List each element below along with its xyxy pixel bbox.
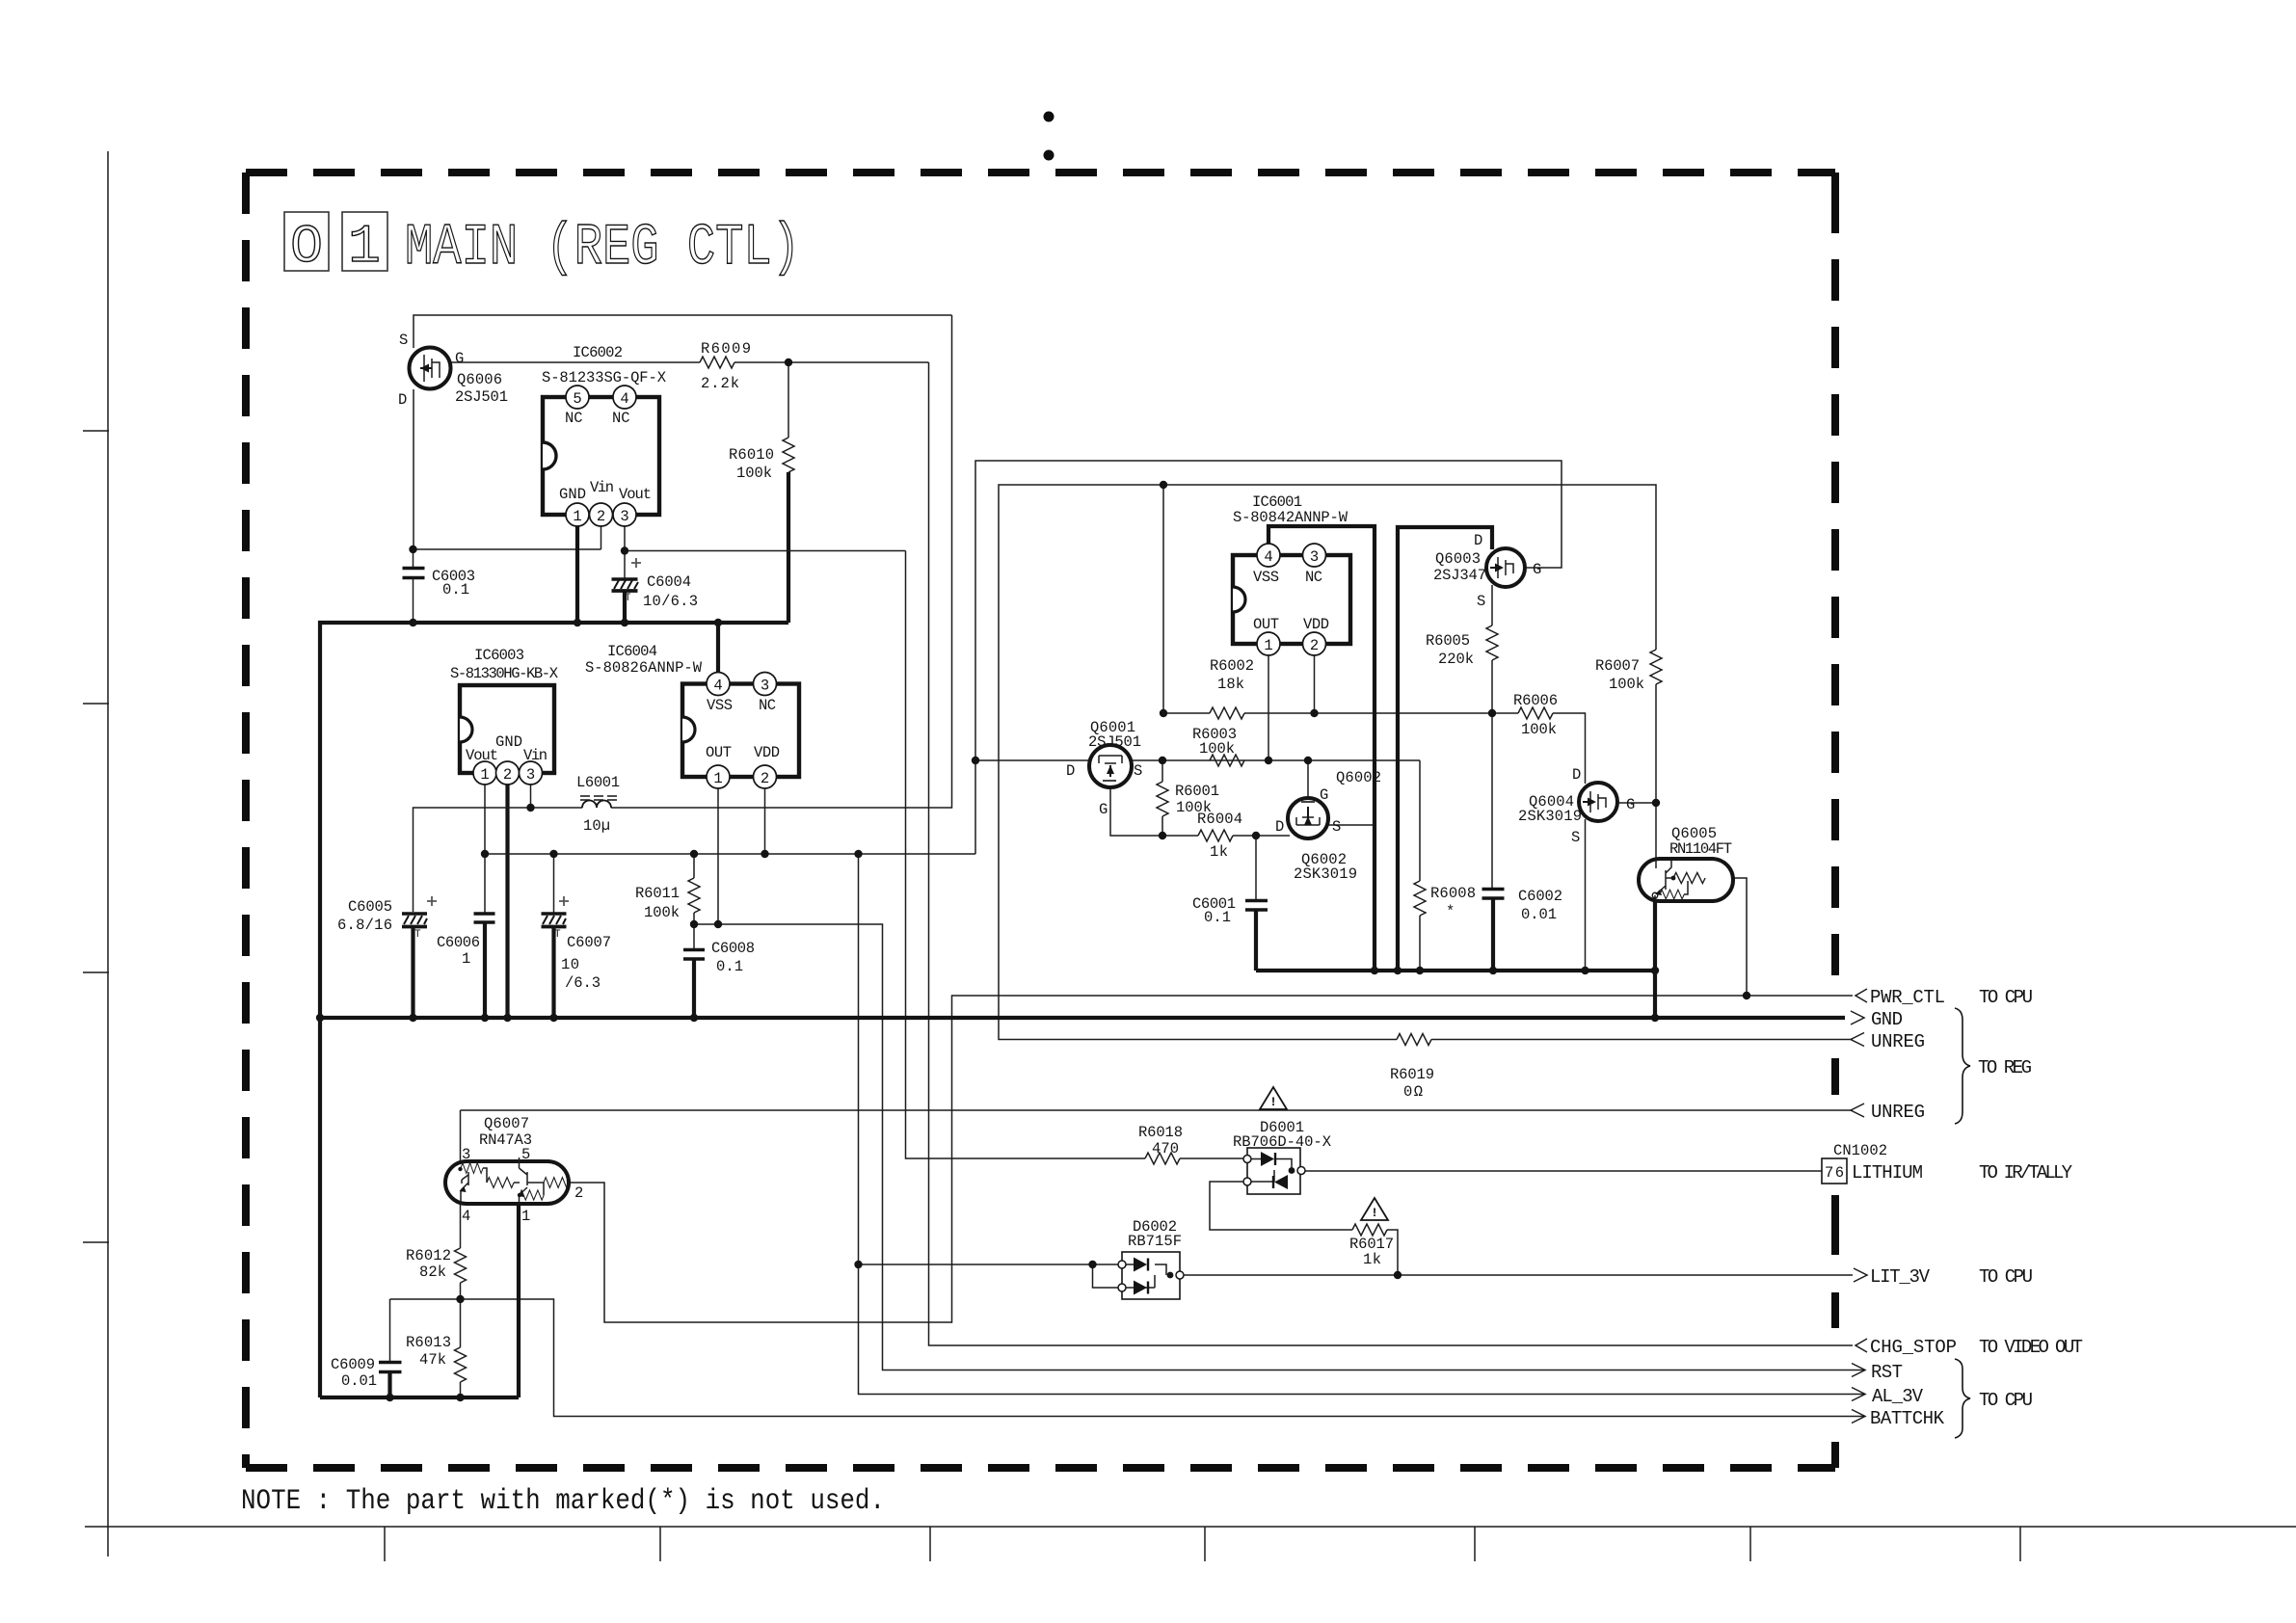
svg-text:C6009: C6009 <box>331 1356 375 1373</box>
wire Q6007 pin1 thick <box>517 1204 521 1397</box>
node Q6002 gate <box>1304 757 1312 764</box>
capacitor C6007 tantalum <box>542 896 612 992</box>
svg-text:NC: NC <box>1305 569 1322 586</box>
resistor R6012 <box>406 1247 467 1283</box>
capacitor C6005 tantalum <box>337 896 437 941</box>
wire C6003 leads <box>413 549 414 623</box>
resistor R6013 <box>406 1334 467 1382</box>
capacitor C6001 <box>1192 895 1268 926</box>
arrow RST output <box>1852 1362 1903 1383</box>
svg-text:LIT_3V: LIT_3V <box>1870 1266 1931 1288</box>
svg-text:5: 5 <box>573 390 581 408</box>
frame bottom ticks <box>385 1527 2020 1561</box>
wire left section vertical thick <box>318 1016 322 1397</box>
svg-text:R6012: R6012 <box>406 1247 451 1264</box>
node bus1 C6003 <box>409 619 416 626</box>
wire Q6003 drain thick loop <box>1398 527 1492 971</box>
svg-text:TO REG: TO REG <box>1978 1057 2032 1078</box>
svg-text:R6018: R6018 <box>1138 1124 1183 1141</box>
svg-text:Vin: Vin <box>590 479 614 496</box>
node R6002 left <box>1160 709 1167 717</box>
node C6001 R6004 <box>1252 832 1260 839</box>
wire VSS rail right section <box>1256 969 1655 972</box>
wire D6002 feed <box>859 1264 1123 1265</box>
title box 0 <box>284 212 329 278</box>
wire PWR_CTL from Q6007 pin2 <box>569 996 1853 1322</box>
svg-text:G: G <box>1099 801 1108 818</box>
svg-text:IC6002: IC6002 <box>573 344 623 361</box>
wire R6001 leads <box>1161 760 1163 836</box>
node bus2 GND IC6003 <box>503 1014 511 1022</box>
svg-text:R6010: R6010 <box>729 446 774 464</box>
svg-text:C6004: C6004 <box>647 573 691 591</box>
node LIT_3V R6017 <box>1394 1271 1402 1279</box>
svg-text:S-80826ANNP-W: S-80826ANNP-W <box>585 659 703 677</box>
wire IC6004 VDD drop <box>764 786 766 854</box>
svg-text:2: 2 <box>503 766 512 784</box>
node R6001 top <box>1159 757 1166 764</box>
svg-text:Q6002: Q6002 <box>1336 769 1381 786</box>
wire R6002 R6006 line y740 <box>1163 713 1586 784</box>
node bus1 C6004 <box>621 619 628 626</box>
svg-text:AL_3V: AL_3V <box>1872 1386 1924 1407</box>
wire UNREG line B and R6007 <box>999 485 1853 1040</box>
wire R6011 leads <box>693 854 695 924</box>
arrow UNREG output2 <box>1851 1102 1925 1123</box>
svg-text:BATTCHK: BATTCHK <box>1870 1408 1945 1429</box>
node Vin IC6003 <box>526 804 534 811</box>
svg-text:3: 3 <box>761 678 769 695</box>
capacitor C6004 tantalum <box>612 558 699 610</box>
svg-text:1k: 1k <box>1210 843 1228 861</box>
svg-text:G: G <box>1533 561 1541 578</box>
wire C6008 top lead <box>693 924 695 949</box>
node OUT drop <box>714 920 722 928</box>
wire C6002 bottom thick <box>1491 899 1495 971</box>
node D6002 branch <box>854 1261 862 1268</box>
svg-text:Vout: Vout <box>619 486 652 503</box>
svg-text:0.1: 0.1 <box>1204 909 1231 926</box>
connector CN1002 pin 76 <box>1822 1142 1887 1184</box>
svg-text:R6001: R6001 <box>1175 783 1219 800</box>
wire C6005 bottom thick <box>411 927 414 1018</box>
arrow LIT_3V output <box>1854 1266 2033 1288</box>
svg-text:76: 76 <box>1825 1164 1844 1182</box>
wire lithium charge from VOUT <box>906 551 1146 1159</box>
svg-text:1: 1 <box>348 216 381 278</box>
svg-text:R6005: R6005 <box>1426 632 1470 650</box>
svg-text:0.01: 0.01 <box>1521 906 1557 923</box>
svg-text:100k: 100k <box>1521 721 1557 738</box>
resistor R6018 <box>1138 1124 1183 1164</box>
node bus2 C6006 <box>481 1014 489 1022</box>
node rail corner Q6005 <box>1651 967 1659 974</box>
svg-text:C6006: C6006 <box>437 934 480 951</box>
reference dot lower <box>1044 150 1055 161</box>
svg-text:VSS: VSS <box>1253 569 1279 586</box>
svg-text:D: D <box>1572 766 1581 784</box>
wire D6002 lower hook <box>1093 1264 1123 1288</box>
node rail R6008 <box>1416 967 1424 974</box>
node bus2 VSS rail <box>1651 1014 1659 1022</box>
svg-text:10/6.3: 10/6.3 <box>643 593 698 610</box>
svg-text:R6007: R6007 <box>1595 657 1640 675</box>
svg-text:1: 1 <box>713 770 722 787</box>
wire C6002 top lead <box>1491 713 1493 889</box>
wire GND bus main <box>319 1016 1845 1020</box>
svg-text:R6008: R6008 <box>1430 885 1476 902</box>
arrow UNREG output1 <box>1851 1031 1925 1052</box>
svg-text:1: 1 <box>480 766 489 784</box>
wire C6001 bottom thick <box>1254 911 1258 971</box>
node Q6006 drain / VIN <box>409 545 416 553</box>
dashed block border top <box>246 169 1835 176</box>
wire Q6004 gate <box>1617 802 1656 804</box>
node bus2 left corner <box>316 1014 324 1022</box>
svg-text:G: G <box>1626 796 1635 813</box>
svg-text:S: S <box>1477 593 1485 610</box>
arrow AL_3V output <box>1852 1386 1924 1407</box>
wire C6004 top lead <box>624 551 626 579</box>
svg-text:1: 1 <box>573 508 581 525</box>
arrow CHG_STOP input <box>1855 1337 2083 1358</box>
wire VOUT net IC6002 pin3 <box>625 523 906 551</box>
wire IC6001 OUT pin1 drop <box>1268 653 1269 760</box>
svg-text:2SJ501: 2SJ501 <box>1088 733 1141 751</box>
svg-text:IC6004: IC6004 <box>607 643 657 660</box>
inductor L6001 <box>576 774 620 835</box>
wire IC6004 VSS thick drop <box>716 623 720 674</box>
svg-text:0.1: 0.1 <box>716 958 743 975</box>
wire IC6003 Vin drop <box>530 783 532 808</box>
node rail Q6004 source <box>1581 967 1589 974</box>
node rail VSS drop <box>1371 967 1378 974</box>
wire CHG_STOP vertical <box>929 362 1854 1345</box>
svg-text:D: D <box>1275 818 1284 836</box>
diode pack D6002 <box>1118 1218 1184 1299</box>
svg-text:R6004: R6004 <box>1197 811 1242 828</box>
svg-text:S-80842ANNP-W: S-80842ANNP-W <box>1233 509 1348 526</box>
resistor R6006 <box>1513 692 1558 738</box>
transistor Q6003 <box>1433 532 1541 610</box>
svg-text:R6011: R6011 <box>635 885 680 902</box>
transistor Q6006 <box>398 332 508 409</box>
svg-text:1: 1 <box>1264 637 1272 654</box>
wire L6001 right to Q6006 riser <box>611 315 952 808</box>
svg-text:3: 3 <box>526 766 535 784</box>
wire R6010 bottom thick lead <box>787 472 790 623</box>
label LITHIUM <box>1852 1162 2073 1184</box>
svg-text:NOTE : The part with marked(*): NOTE : The part with marked(*) is not us… <box>241 1485 885 1518</box>
svg-text:R6013: R6013 <box>406 1334 451 1351</box>
svg-text:IC6003: IC6003 <box>474 647 524 664</box>
svg-text:/6.3: /6.3 <box>565 974 601 992</box>
svg-text:220k: 220k <box>1438 651 1474 668</box>
svg-text:D: D <box>1474 532 1482 549</box>
svg-text:0Ω: 0Ω <box>1403 1083 1423 1101</box>
svg-text:Q6006: Q6006 <box>457 371 502 388</box>
wire R6013 leads <box>460 1299 462 1397</box>
resistor R6002 <box>1210 657 1254 719</box>
resistor R6005 <box>1426 625 1498 668</box>
svg-text:Vin: Vin <box>523 747 547 764</box>
svg-text:T: T <box>554 929 561 941</box>
svg-text:RB706D-40-X: RB706D-40-X <box>1233 1133 1332 1151</box>
node bus2 C6008 <box>690 1014 698 1022</box>
svg-text:0.1: 0.1 <box>442 581 469 599</box>
svg-text:Q6003: Q6003 <box>1435 550 1481 568</box>
wire UNREG2 line from Q6007 pin3 <box>461 1109 1854 1111</box>
capacitor C6003 <box>403 568 476 599</box>
node 3V rail branch x891 <box>854 850 862 858</box>
wire Q6001 gate to R6004 line <box>1110 787 1198 836</box>
node VOUT pin3 <box>621 546 628 554</box>
svg-text:18k: 18k <box>1217 676 1244 693</box>
svg-text:VDD: VDD <box>1303 616 1329 633</box>
dashed block border right <box>1831 173 1839 1468</box>
transistor network Q6007 <box>445 1115 583 1225</box>
svg-text:470: 470 <box>1152 1140 1179 1157</box>
node Q6004 gate R6007 <box>1652 799 1660 807</box>
wire IC6002 GND pin1 thick <box>575 523 579 623</box>
svg-text:2: 2 <box>761 770 769 787</box>
IC6003 <box>450 647 559 785</box>
svg-text:S: S <box>1332 818 1341 836</box>
capacitor C6008 <box>683 940 755 975</box>
svg-text:NC: NC <box>759 697 776 714</box>
wire R6012 top lead <box>460 1204 462 1248</box>
wire R6012 bottom lead <box>460 1283 462 1299</box>
wire GND bus upper <box>320 623 788 1018</box>
warning triangle 1 <box>1260 1087 1287 1109</box>
svg-text:C6007: C6007 <box>567 934 611 951</box>
transistor Q6001 <box>1066 719 1142 818</box>
svg-text:5: 5 <box>521 1146 530 1163</box>
wire Q6007 pin3 lead <box>460 1110 462 1166</box>
frame left tick 1 <box>83 430 109 432</box>
svg-text:CHG_STOP: CHG_STOP <box>1870 1337 1957 1358</box>
svg-text:T: T <box>414 929 421 941</box>
frame left tick 3 <box>83 971 109 973</box>
svg-text:MAIN (REG CTL): MAIN (REG CTL) <box>405 216 800 281</box>
svg-text:1: 1 <box>521 1208 530 1225</box>
resistor R6009 <box>700 340 751 392</box>
svg-text:UNREG: UNREG <box>1871 1102 1925 1123</box>
node OUT IC6001 <box>1265 757 1272 764</box>
resistor R6010 <box>729 438 794 482</box>
svg-text:OUT: OUT <box>706 744 732 761</box>
arrow GND output <box>1851 1009 1903 1030</box>
node VDD IC6001 <box>1310 709 1318 717</box>
svg-text:2: 2 <box>1310 637 1319 654</box>
svg-text:T: T <box>625 593 631 604</box>
svg-text:2SJ501: 2SJ501 <box>455 388 508 406</box>
frame bottom horizontal line <box>85 1526 2296 1528</box>
node R6009/R6010 <box>785 359 792 366</box>
capacitor C6002 <box>1482 888 1563 923</box>
svg-text:4: 4 <box>620 390 628 408</box>
svg-text:R6006: R6006 <box>1513 692 1558 709</box>
warning triangle 2 <box>1361 1198 1388 1220</box>
wire C6004 bottom thick lead <box>623 592 627 623</box>
svg-text:2SK3019: 2SK3019 <box>1294 865 1357 883</box>
svg-text:S-81330HG-KB-X: S-81330HG-KB-X <box>450 665 559 682</box>
wire R6008 bottom lead <box>1419 916 1421 971</box>
node bus2 C6005 <box>409 1014 416 1022</box>
svg-text:4: 4 <box>713 678 722 695</box>
svg-text:1: 1 <box>462 950 470 968</box>
wire R6008 top lead <box>1419 760 1421 881</box>
wire Q6004 source drop <box>1585 819 1587 971</box>
svg-text:G: G <box>1320 786 1328 804</box>
node PWR_CTL Q6005 <box>1743 992 1750 999</box>
reference dot upper <box>1044 112 1055 122</box>
node bus1 VSS IC6004 <box>714 619 722 626</box>
svg-text:RST: RST <box>1871 1362 1903 1383</box>
node bottom loop C6009 <box>386 1394 393 1401</box>
svg-text:GND: GND <box>495 733 522 751</box>
svg-text:OUT: OUT <box>1253 616 1279 633</box>
svg-text:TO IR/TALLY: TO IR/TALLY <box>1979 1162 2073 1184</box>
wire 3V rail riser to line A and Q6003 gate <box>975 461 1562 854</box>
wire C6006 bottom thick <box>483 922 487 1018</box>
wire 3V rail y886 <box>485 853 975 855</box>
svg-text:C6002: C6002 <box>1518 888 1562 905</box>
wire Q6005 emitter thick <box>1653 899 1657 1018</box>
svg-text:O: O <box>290 216 323 278</box>
dashed block border left <box>242 173 250 1468</box>
node rail C6002 <box>1489 967 1497 974</box>
svg-text:Vout: Vout <box>466 747 498 764</box>
IC6002 <box>542 344 667 526</box>
frame left tick 4 <box>83 1241 109 1243</box>
resistor R6017 <box>1349 1224 1394 1268</box>
svg-text:47k: 47k <box>419 1351 446 1369</box>
wire IC6003 GND thick drop <box>505 783 509 1018</box>
capacitor C6006 <box>437 914 495 968</box>
node R6001 bottom <box>1159 832 1166 839</box>
svg-text:!: ! <box>1371 1206 1378 1220</box>
svg-text:S-81233SG-QF-X: S-81233SG-QF-X <box>542 369 667 386</box>
wire R6018 to D6001 <box>1180 1157 1247 1159</box>
transistor Q6005 <box>1639 825 1733 901</box>
resistor R6003 <box>1192 726 1244 766</box>
svg-text:82k: 82k <box>419 1264 446 1281</box>
wire IC6004 OUT drop <box>717 786 719 924</box>
wire IC6003 Vout drop <box>484 783 486 914</box>
wire C6001 top lead <box>1255 836 1257 900</box>
wire LITHIUM line <box>1301 1170 1822 1172</box>
svg-text:TO CPU: TO CPU <box>1979 987 2033 1008</box>
wire Q6006 source top loop <box>414 315 952 348</box>
svg-text:2SK3019: 2SK3019 <box>1518 808 1582 825</box>
svg-text:Q6007: Q6007 <box>484 1115 529 1132</box>
wire Q6002 source to VSS <box>1328 824 1375 826</box>
svg-text:S: S <box>1134 762 1142 780</box>
svg-text:3: 3 <box>1310 548 1319 566</box>
diode pack D6001 <box>1233 1119 1332 1194</box>
resistor R6004 <box>1197 811 1242 861</box>
resistor R6001 <box>1157 782 1219 816</box>
node R6012 R6013 <box>456 1295 464 1303</box>
svg-text:10: 10 <box>561 956 579 973</box>
node bus1 GND pin1 <box>574 619 581 626</box>
svg-text:4: 4 <box>1264 548 1272 566</box>
resistor R6011 <box>635 878 700 921</box>
svg-text:6.8/16: 6.8/16 <box>337 917 392 934</box>
svg-text:3: 3 <box>462 1146 470 1163</box>
svg-text:GND: GND <box>1871 1009 1903 1030</box>
resistor R6019 <box>1390 1034 1434 1102</box>
IC6001 <box>1233 493 1350 655</box>
wire Q6005 base resistor to PWR_CTL <box>1720 878 1747 996</box>
svg-text:*: * <box>1446 903 1455 920</box>
svg-text:NC: NC <box>565 410 583 427</box>
wire L6001 left net with C6005 <box>414 808 583 912</box>
node 3V rail C6007 <box>549 850 557 858</box>
svg-text:VDD: VDD <box>754 744 780 761</box>
brace TO REG <box>1955 1008 2032 1124</box>
svg-text:S: S <box>399 332 408 349</box>
capacitor C6009 <box>331 1356 402 1390</box>
svg-text:C6005: C6005 <box>348 898 392 916</box>
svg-text:4: 4 <box>462 1208 470 1225</box>
brace TO CPU lower <box>1955 1359 2033 1438</box>
svg-text:3: 3 <box>620 508 628 525</box>
node D6002 hook <box>1088 1261 1096 1268</box>
node 3V rail R6011 <box>690 850 698 858</box>
svg-text:TO CPU: TO CPU <box>1979 1266 2033 1288</box>
node R6003 line A <box>972 757 979 764</box>
node rail Q6003 drop <box>1394 967 1402 974</box>
wire Q6002 gate drop <box>1307 760 1309 798</box>
title box 1 <box>342 212 387 278</box>
arrow BATTCHK output <box>1852 1408 1945 1429</box>
wire Q6006 gate to R6009 <box>451 361 700 363</box>
svg-text:R6002: R6002 <box>1210 657 1254 675</box>
wire IC6001 VSS thick loop <box>1268 526 1375 971</box>
svg-text:LITHIUM: LITHIUM <box>1852 1162 1923 1184</box>
svg-text:RN1104FT: RN1104FT <box>1669 840 1732 858</box>
wire IC6001 VDD riser x1207 <box>1162 485 1164 713</box>
resistor R6008 <box>1414 881 1476 920</box>
wire 3V branch to D6002 and AL_3V <box>859 854 1865 1395</box>
svg-text:UNREG: UNREG <box>1871 1031 1925 1052</box>
wire C6009 top lead <box>389 1299 391 1362</box>
wire C6007 top lead <box>553 854 555 914</box>
dashed block border bottom <box>246 1464 1835 1472</box>
svg-text:TO VIDEO OUT: TO VIDEO OUT <box>1979 1337 2083 1358</box>
svg-text:100k: 100k <box>736 465 772 482</box>
wire R6009 to CHG node corner <box>734 361 929 363</box>
svg-text:D: D <box>398 391 407 409</box>
wire IC6001 VDD pin2 drop <box>1314 653 1316 713</box>
svg-text:GND: GND <box>559 486 586 503</box>
wire Q6003 source to R6005 <box>1491 585 1493 713</box>
wire LIT_3V line <box>1180 1274 1853 1276</box>
wire divider line y1348 to BATTCHK <box>390 1299 1865 1417</box>
svg-text:100k: 100k <box>1199 740 1235 758</box>
svg-text:S: S <box>1571 829 1580 846</box>
svg-text:R6009: R6009 <box>701 340 751 358</box>
svg-text:CN1002: CN1002 <box>1833 1142 1887 1159</box>
node OUT R6011 C6008 <box>690 920 698 928</box>
node 3V rail Vout <box>481 850 489 858</box>
node line B R6002 riser <box>1160 481 1167 489</box>
wire lower left loop thick <box>320 1396 519 1399</box>
svg-text:2: 2 <box>597 508 605 525</box>
node 3V rail VDD <box>761 850 768 858</box>
